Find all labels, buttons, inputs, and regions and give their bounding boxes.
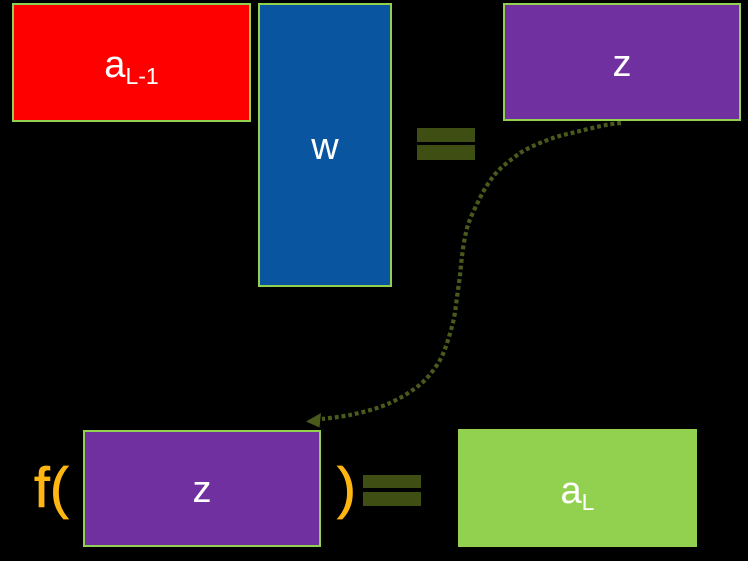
equals sign (top) bar 2 (417, 145, 475, 160)
arrowhead (306, 413, 321, 428)
matrix z (purple box, top right) (503, 3, 741, 121)
matrix z (purple box, bottom left) (83, 430, 321, 547)
closing paren ) (orange) (337, 455, 356, 521)
equals sign (top) bar 1 (417, 128, 475, 142)
function f( (orange) (34, 455, 69, 521)
matrix w (blue box) (258, 3, 392, 287)
matrix a_L (green box) (458, 429, 697, 547)
matrix a_{L-1} (red box) (12, 3, 251, 122)
equals sign (bottom) bar 1 (363, 475, 421, 488)
equals sign (bottom) bar 2 (363, 492, 421, 506)
